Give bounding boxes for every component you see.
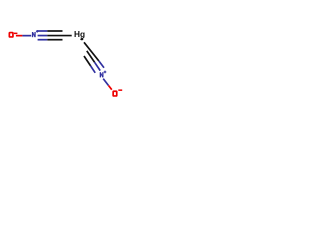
bond O1-N1 single (blue half) [22,35,31,37]
atom N1 (left nitrogen) [32,32,36,37]
bond O1-N1 single (red half) [16,35,23,37]
charge plus on N1 [36,30,39,33]
atom O2 (bottom-right oxygen) [113,91,117,96]
svg-text:Hg: Hg [74,29,85,39]
bond N2-O2 single (blue half) [103,79,108,86]
charge minus on O2 [118,89,122,91]
triple bond C2#N2 lower-left outer line [84,56,91,66]
bond N2-O2 single (red half) [109,86,112,90]
charge minus on O1 [14,33,18,35]
atom O1 (top-left oxygen) [9,33,13,37]
triple bond N1#C1 bottom line [38,39,48,41]
bond Hg-C2 single (diagonal, merges into upper-right line of triple bond) [84,42,99,61]
triple bond N1#C1 middle line + bond C1-Hg [38,35,48,37]
charge plus on N2 [104,71,107,74]
triple bond C2#N2 center line [87,51,95,62]
triple bond N1#C1 top line [38,30,48,32]
atom N2 (lower-right nitrogen) [100,72,104,77]
